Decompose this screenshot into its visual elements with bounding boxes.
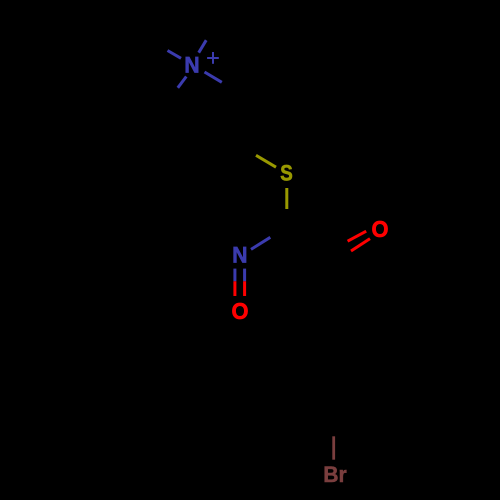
svg-text:O: O <box>372 216 389 242</box>
wire S to C down <box>285 188 288 209</box>
svg-text:N: N <box>184 53 199 78</box>
svg-text:N: N <box>232 242 247 267</box>
wire N+ to methyl up <box>199 40 207 53</box>
svg-text:S: S <box>280 161 293 186</box>
wire C=O carbonyl double bond upper line <box>348 231 367 241</box>
wire N+ to CH2 down-right <box>205 72 222 82</box>
wire C to N nitroso <box>251 237 270 249</box>
wire S to CH2 up-left <box>256 155 276 167</box>
plus charge <box>207 52 219 64</box>
wire N=O double bond left line <box>233 269 236 282</box>
wire C aryl to Br <box>332 436 335 459</box>
svg-text:O: O <box>232 298 249 324</box>
svg-text:Br: Br <box>323 462 347 487</box>
wire N=O double bond right line <box>243 269 246 282</box>
wire N+ to methyl left <box>168 51 182 59</box>
wire N+ to methyl down-left <box>178 77 187 88</box>
wire C=O carbonyl double bond lower line <box>351 239 370 251</box>
